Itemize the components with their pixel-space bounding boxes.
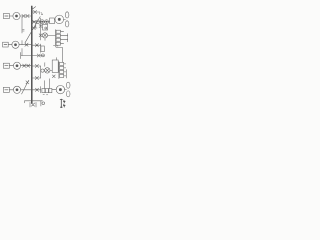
generator G2 circle [12, 41, 19, 48]
wire top branch [32, 11, 39, 13]
main bus [31, 6, 33, 103]
small X below box [52, 75, 55, 78]
stub below chain [35, 23, 37, 28]
breaker X G1 a [22, 14, 25, 17]
breaker X segA bottom [39, 34, 42, 37]
ladder 2 stubs [64, 63, 66, 65]
branch right of bus y66 [32, 65, 41, 67]
branch row right of bus y21.5 [32, 21, 50, 23]
wire G3 [9, 65, 13, 67]
figure caption rotated "Figure 7" [60, 99, 65, 107]
branch right of bus y45.2 [32, 44, 41, 46]
breaker X y78 [35, 76, 38, 79]
breaker X [35, 64, 38, 67]
wire G1 to bus [20, 15, 32, 17]
battery cells row [42, 89, 45, 93]
generator G3 circle [13, 62, 20, 69]
top stub diagonal [32, 7, 36, 10]
small aux box below row1 [43, 24, 48, 30]
feeder end bar [65, 70, 67, 78]
label 12 [39, 12, 43, 15]
ladder stubs [61, 31, 64, 33]
wire converter to ladder [48, 35, 56, 37]
small circle at tie end [41, 54, 44, 57]
generator G4 circle [13, 86, 20, 93]
bar [40, 87, 42, 93]
tie line vertical left [21, 18, 23, 33]
generator G4 box [3, 87, 9, 92]
bottom shore connection [25, 100, 43, 102]
generator G2 box [3, 42, 9, 47]
wire G4 [9, 89, 13, 91]
wire G4 to bus [21, 89, 32, 91]
row3 stub up [44, 63, 46, 67]
wire cells to motor 2 [52, 89, 56, 91]
generator G1 box [3, 14, 9, 19]
distribution ladder 1 [54, 30, 56, 47]
propeller 2 [66, 82, 70, 88]
tie stub [21, 41, 23, 45]
shaft to propeller 2 [65, 89, 67, 91]
breaker X [35, 88, 38, 91]
second vertical stub [43, 81, 45, 89]
branch y78 [32, 77, 41, 79]
breaker X row1 [33, 20, 36, 23]
wire G3 to bus [21, 65, 32, 67]
wire G1 [9, 15, 13, 17]
propeller 1 [65, 12, 69, 18]
breaker X G2 [25, 43, 28, 46]
right bus segment A [40, 18, 42, 40]
motor M2 circle [56, 85, 64, 93]
generator G3 box [3, 63, 9, 68]
motor M1 circle [55, 15, 64, 24]
tiny labels near ladder [53, 44, 58, 47]
cross diagonal D1 [25, 17, 40, 43]
feeder end bars [67, 34, 69, 38]
motor M1 box [50, 18, 55, 24]
breaker X G3 a [23, 64, 26, 67]
distribution ladder 2 [58, 62, 60, 79]
shaft to propeller 1 [64, 18, 66, 20]
riser above box [55, 58, 57, 60]
converter circle-X 1 [42, 33, 47, 38]
small circle b with dot [40, 20, 44, 24]
small circle row3 [41, 69, 44, 72]
breaker on D1 [32, 27, 35, 30]
generator G1 circle [13, 12, 20, 19]
big box (switchboard) [52, 60, 58, 72]
breaker X on tie [37, 54, 40, 57]
wire G2 to bus [19, 44, 32, 46]
breaker X G1 b [26, 14, 29, 17]
breaker X G3 b [27, 64, 30, 67]
breaker X segA top [39, 25, 42, 28]
vertical from ladder2 down [49, 79, 51, 89]
branch right of bus y89.8 [32, 89, 41, 91]
link wire ladder1 to ladder2 [56, 48, 63, 63]
bus tie horizontal y55.5 [21, 55, 44, 57]
right bus segment C [40, 66, 42, 78]
wire to big box [50, 69, 52, 71]
small circle a [36, 20, 40, 24]
breaker X top branch [34, 10, 37, 13]
right bus segment B [40, 44, 42, 52]
wire box to motor [53, 18, 56, 20]
converter circle-X 2 [45, 68, 50, 73]
breaker X [35, 44, 38, 47]
small circle c with dot [45, 20, 49, 24]
wire G2 [8, 44, 12, 46]
breaker on D3 [26, 81, 29, 84]
cross diagonal D3 [22, 80, 29, 94]
